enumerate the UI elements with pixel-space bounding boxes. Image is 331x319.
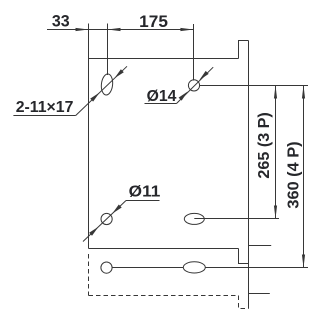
hole O11 arrow lower	[89, 227, 98, 236]
extension line at slot center	[107, 24, 109, 76]
plate top-right step	[239, 41, 249, 59]
hole O11 arrow upper	[112, 205, 122, 214]
hole O11 circle	[101, 213, 112, 224]
leader 2-11x17 diagonal	[76, 66, 127, 115]
arrow 175 right	[180, 28, 193, 31]
slot arrow lower	[90, 93, 99, 102]
leader 2-11x17 underline	[13, 115, 75, 117]
svg-text:175: 175	[139, 13, 168, 31]
slot 4P ellipse	[183, 262, 205, 273]
plate bottom-right step	[239, 249, 249, 264]
dashed 4P bottom edge	[89, 295, 239, 297]
plate right edge	[248, 41, 250, 309]
plate bottom edge (3P)	[89, 248, 239, 250]
dim 265 line	[275, 86, 277, 219]
dashed 4P bottom-right step	[239, 296, 249, 309]
arrow 33 left	[76, 28, 89, 31]
dim 360 arrow up	[302, 86, 305, 99]
svg-text:265 (3 P): 265 (3 P)	[256, 112, 273, 178]
plate top edge	[89, 58, 239, 60]
svg-text:Ø11: Ø11	[129, 183, 161, 200]
right tab line upper	[249, 245, 272, 247]
line 4P hole height	[112, 267, 308, 269]
line hole height reference	[200, 85, 308, 87]
hole O14 circle	[188, 80, 199, 91]
right tab line lower	[249, 293, 270, 295]
slot 3P ellipse	[184, 213, 204, 224]
dim 265 arrow down	[274, 206, 277, 219]
dim 33 line	[47, 29, 108, 31]
leader O11 diagonal	[83, 201, 126, 242]
dim 175 line	[108, 29, 194, 31]
plate left edge with extension line	[88, 24, 90, 249]
hole 4P circle	[101, 262, 112, 273]
line 3P hole height	[194, 218, 279, 220]
dim 360 line	[303, 86, 305, 268]
extension line at hole O14 center	[193, 24, 195, 81]
leader O11 underline	[126, 200, 160, 202]
svg-text:2-11×17: 2-11×17	[16, 99, 74, 116]
dim 265 arrow up	[274, 86, 277, 99]
hole O14 arrow lower	[179, 91, 188, 100]
dim 360 arrow down	[302, 255, 305, 268]
leader O14 underline	[145, 103, 177, 105]
leader O14 diagonal	[177, 67, 214, 103]
svg-text:Ø14: Ø14	[147, 88, 177, 105]
slot 2-11x17 ellipse	[100, 73, 113, 95]
dashed 4P left edge	[88, 254, 90, 296]
svg-text:33: 33	[52, 13, 70, 31]
arrow 33 right / 175 left	[108, 28, 121, 31]
svg-text:360 (4 P): 360 (4 P)	[286, 141, 303, 208]
hole O14 arrow upper	[199, 71, 208, 80]
slot arrow upper	[114, 69, 123, 78]
